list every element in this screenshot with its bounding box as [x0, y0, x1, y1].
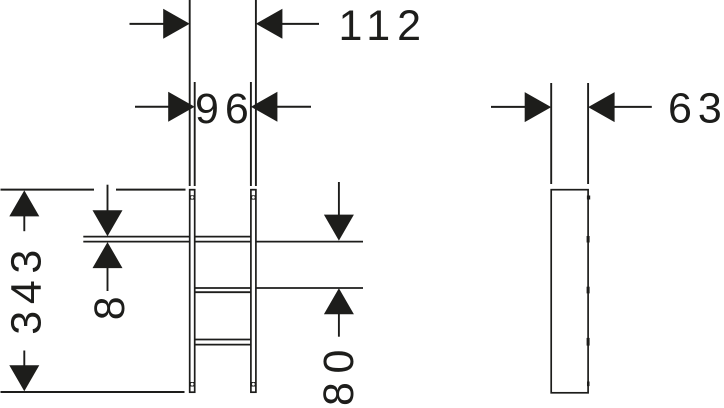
dimension 8 upper line — [107, 185, 109, 213]
dimension 343 line upper — [23, 215, 25, 231]
svg-text:96: 96 — [195, 85, 255, 133]
side view bottom hook — [587, 382, 590, 387]
dimension 8 up arrow — [93, 242, 123, 268]
rung 3 bottom line — [195, 344, 251, 346]
svg-text:343: 343 — [3, 243, 51, 335]
dimension 80 lower line — [338, 313, 340, 337]
svg-text:112: 112 — [339, 2, 429, 50]
crossbar top line — [83, 236, 251, 238]
svg-text:80: 80 — [315, 341, 363, 406]
dimension 8 lower line — [107, 266, 109, 291]
dimension 343 top extension line — [1, 189, 95, 191]
rail left — [190, 190, 195, 393]
dimension 8 down arrow — [93, 210, 123, 236]
dimension 343 line lower — [23, 351, 25, 367]
svg-text:8: 8 — [86, 296, 134, 320]
dimension 343 top arrow — [9, 190, 39, 216]
side view extension line right — [587, 83, 589, 184]
side view crossbar mark — [587, 236, 590, 243]
bracket top-left — [189, 195, 195, 199]
extension line inner-right (96) — [250, 82, 252, 186]
side view extension line left — [550, 83, 552, 184]
side view rung3 mark — [587, 338, 590, 346]
dimension 96 right arrow — [251, 92, 278, 122]
bracket bottom-right — [250, 382, 256, 387]
side view rung2 mark — [587, 287, 590, 294]
rung 2 top line — [195, 287, 363, 289]
extension line outer-right (112) — [255, 0, 257, 186]
extension line inner-left (96) — [194, 82, 196, 186]
dimension 63 right leader — [613, 106, 652, 108]
dimension 80 upper line — [338, 182, 340, 217]
dimension 343 bottom arrow — [9, 365, 39, 391]
bracket top-right — [250, 195, 256, 199]
dimension 63 left arrow — [525, 92, 552, 122]
extension line outer-left (112) — [189, 0, 191, 186]
dimension 96 left arrow — [168, 92, 195, 122]
dimension 96 right leader — [276, 106, 311, 108]
dimension 112 left arrow — [163, 9, 190, 39]
rung 3 top line — [195, 339, 251, 341]
dimension 96 left leader — [135, 106, 170, 108]
dimension 63 left leader — [491, 106, 526, 108]
svg-text:63: 63 — [668, 84, 724, 132]
dimension 80 down arrow — [324, 215, 354, 241]
rung 2 bottom line — [195, 291, 251, 293]
crossbar bottom line — [83, 241, 363, 243]
side view panel — [551, 190, 588, 393]
dimension 80 up arrow — [324, 288, 354, 314]
rail right — [251, 190, 256, 393]
dimension 112 left leader — [130, 23, 166, 25]
dimension 343 bottom extension line — [1, 391, 185, 393]
bracket bottom-left — [189, 382, 195, 387]
side view top hook — [587, 196, 590, 200]
dimension 112 right leader — [281, 23, 319, 25]
dimension 112 right arrow — [256, 9, 283, 39]
dimension 63 right arrow — [588, 92, 615, 122]
